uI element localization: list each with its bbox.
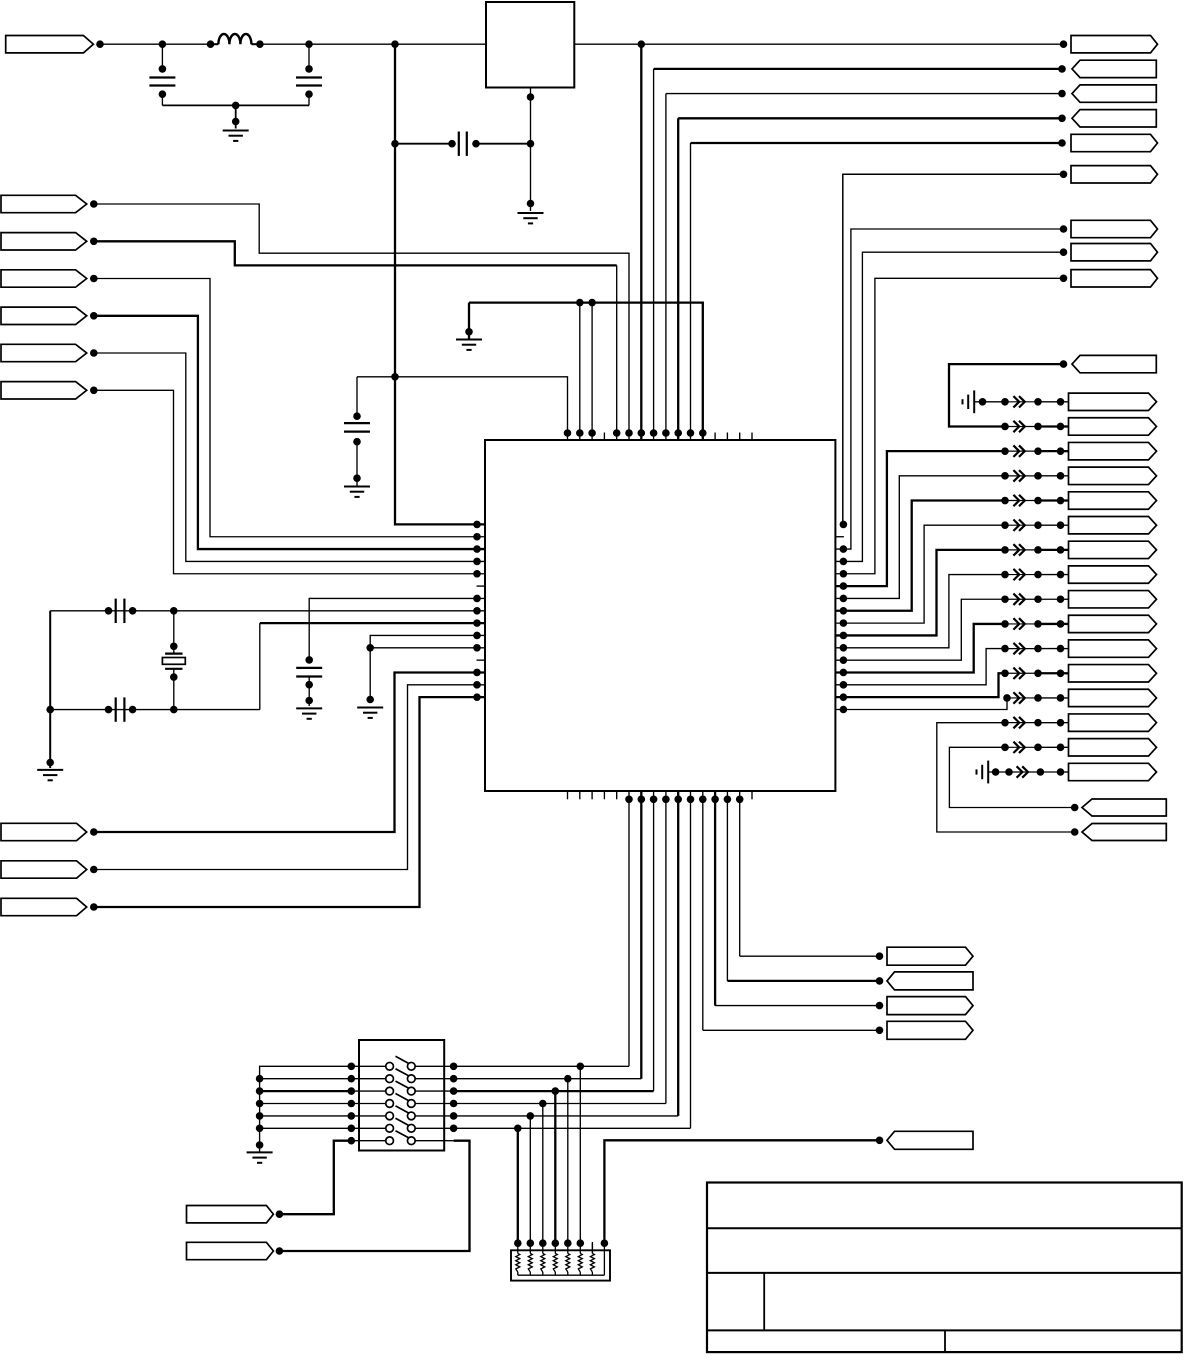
ferrite bead FB3 <box>1001 445 1064 456</box>
ferrite bead FB7 <box>1001 544 1064 555</box>
connector P-R1 flag <box>1069 418 1157 435</box>
junction dot RN1 riser row4 <box>539 1100 547 1247</box>
connector P-B1 flag <box>1082 799 1166 816</box>
capacitor C4 <box>344 377 370 486</box>
connector P-BR1005.6 flag <box>887 997 973 1015</box>
junction dot SW1 right pin6 <box>450 1125 458 1133</box>
connector P-M1 flag <box>1 823 87 840</box>
wire P-D to IC top pin <box>678 118 1063 440</box>
junction dot P-R1src <box>1060 360 1068 368</box>
wire P-B2 to row m13 <box>937 723 1075 832</box>
junction dot P-S1 <box>276 1210 284 1218</box>
wire row m6 to flag <box>1061 549 1069 551</box>
junction dot P-G <box>1060 225 1068 233</box>
junction dot IC top pin12 <box>699 429 707 437</box>
wire 3V3 to IC top pin7 <box>640 44 642 440</box>
junction dot IC right pin G <box>840 545 848 553</box>
connector P-E flag <box>1071 134 1158 151</box>
junction dot P-I <box>1060 275 1068 283</box>
junction dot P-L2 <box>90 238 98 246</box>
ferrite bead FB2 <box>1001 421 1064 432</box>
wire row m15 to flag <box>1061 771 1069 773</box>
ferrite bead FB15 <box>1001 742 1064 753</box>
wire row m13 to flag <box>1061 722 1069 724</box>
connector P-S2 flag <box>187 1242 274 1259</box>
wire IC bottom pin11 to SW1 row6 <box>454 791 691 1128</box>
junction dot P-M3 <box>90 903 98 911</box>
ferrite bead FB6 <box>1001 520 1064 531</box>
connector P-C flag <box>1072 85 1156 102</box>
junction dot SW1 right pin1 <box>450 1063 458 1071</box>
junction dot IC left pin3 <box>473 545 481 553</box>
wire L1 to node VIN-B <box>260 43 309 45</box>
connector P-R0 flag <box>1069 393 1157 410</box>
junction dot IC top pin E <box>687 429 695 437</box>
wire AGND to IC top pin3 <box>591 303 593 440</box>
junction dot IC top pin D <box>674 429 682 437</box>
connector P-BR980.9 flag <box>887 972 973 990</box>
wire IC bottom pin6 to SW1 row1 <box>454 791 629 1066</box>
capacitor C2 <box>296 44 322 105</box>
junction dot P-E <box>1058 139 1066 147</box>
connector P-R12 flag <box>1069 689 1157 706</box>
junction dot IC left pin VREF <box>473 595 481 603</box>
title block frame <box>707 1183 1182 1353</box>
capacitor C7 <box>296 656 322 706</box>
connector P-L5 flag <box>1 344 87 361</box>
wire P-F to IC right pin1 <box>843 174 1064 524</box>
connector P-B2 flag <box>1082 824 1166 841</box>
connector P-R14 flag <box>1069 739 1157 756</box>
connector P-R5 flag <box>1069 517 1157 534</box>
capacitor C3 <box>395 132 531 156</box>
wire P-S2 to SW1 row7 <box>279 1141 469 1251</box>
connector P-A 3V3 output flag <box>1071 36 1158 53</box>
wire P-C to IC top pin <box>666 94 1064 440</box>
junction dot P-L3 <box>90 275 98 283</box>
junction dot IC bottom pin6 <box>625 796 633 804</box>
wire RN1 riser row3 <box>554 1091 556 1243</box>
wire SW1 left ground bus <box>260 1066 352 1152</box>
connector P-D flag <box>1072 110 1156 127</box>
junction dot IC top pin5 <box>613 429 621 437</box>
junction dot VCC at IC pin <box>473 521 481 529</box>
junction dot SW1 right pin2 <box>450 1075 458 1083</box>
junction dot IC right pin12 <box>840 656 848 664</box>
wire P-S1 to SW1 row7 <box>279 1141 351 1215</box>
junction dot SW1 right pin5 <box>450 1112 458 1120</box>
junction dot IC bottom pin13 <box>711 796 719 804</box>
wire row m4 to flag <box>1061 499 1069 501</box>
wire U1 output to node A <box>574 43 641 45</box>
node U1-GND junction <box>527 140 535 148</box>
connector P-BR5 flag <box>887 1131 973 1149</box>
resistor network RN1 elements <box>516 1242 605 1275</box>
junction dot IC left pin gnd-b <box>473 644 481 652</box>
junction dot IC left pin m1 <box>473 669 481 677</box>
junction dot gnd net tee <box>366 644 374 652</box>
wire IC right pin12 to row m8 <box>835 599 1005 660</box>
junction dot IC left pin XTAL1 <box>473 607 481 615</box>
title block row line 2 <box>707 1272 1182 1274</box>
connector P-R3 flag <box>1069 467 1157 484</box>
ground GND7 <box>296 708 322 718</box>
junction dot IC right pin11 <box>840 644 848 652</box>
ground GND4 <box>344 487 370 497</box>
wire row m11 to flag <box>1061 672 1069 674</box>
connector P-L2 flag <box>1 233 87 250</box>
connector P-R8 flag <box>1069 591 1157 608</box>
wire P-L5 to IC left pin4 <box>94 353 485 561</box>
junction dot IC left pin m3 <box>473 693 481 701</box>
wire RN1 riser row5 <box>529 1116 531 1243</box>
wire IC right pin7 to row m3 <box>835 476 1005 599</box>
junction dot IC left pin5 <box>473 570 481 578</box>
ferrite bead FB13 <box>1003 692 1064 703</box>
junction dot P-D <box>1058 115 1066 123</box>
junction dot IC top pin B <box>650 429 658 437</box>
junction dot P-L6 <box>90 387 98 395</box>
wire P-M3 to IC left pin <box>94 697 485 907</box>
connector P-R1src flag <box>1072 355 1156 372</box>
wire IC right pin14 to row m10 <box>835 649 1005 685</box>
connector P-BR1030.3 flag <box>887 1021 973 1039</box>
wire IC bottom pin9 to SW1 row4 <box>454 791 666 1104</box>
wire IC right pin15 to row m11 <box>835 673 1005 697</box>
junction dot IC top pin2 <box>576 429 584 437</box>
wire GND9 to FB1 <box>974 398 1005 406</box>
junction dot IC bottom pin10 <box>674 796 682 804</box>
junction dot IC right pin1 <box>840 521 848 529</box>
wire IC right pin6 to row m2 <box>835 451 1005 586</box>
junction dot SW1 right pin4 <box>450 1100 458 1108</box>
junction dot IC bottom pin8 <box>650 796 658 804</box>
IC U2 body <box>485 440 835 791</box>
junction dot IC left pin gnd-a <box>473 632 481 640</box>
junction dot IC right pin10 <box>840 632 848 640</box>
wire RN1 riser row4 <box>542 1104 544 1244</box>
wire P-L1 to IC top pin6 <box>94 204 629 440</box>
node XTAL2-Y1 junction <box>170 706 178 714</box>
wire ground bus stem <box>232 105 240 128</box>
junction dot RN1 riser row6 <box>514 1125 522 1247</box>
wire row m12 to flag <box>1061 697 1069 699</box>
wire P-B to IC top pin <box>654 69 1064 440</box>
node VIN-B junction <box>305 40 313 48</box>
wire node376 to IC top pin1 <box>357 377 568 440</box>
junction dot IC top pin6 <box>625 429 633 437</box>
junction dot IC left pin XTAL2 <box>473 619 481 627</box>
junction dot flag y1030.3 <box>876 1027 884 1035</box>
junction dot RN1 riser row3 <box>552 1087 560 1247</box>
wire U1-GND stem <box>527 144 535 211</box>
connector P-L6 flag <box>1 382 87 399</box>
wire C1/C2 ground bus <box>162 104 309 106</box>
junction dot P-S2 <box>276 1247 284 1255</box>
junction dot AGND-b <box>588 299 596 307</box>
wire AGND rail <box>469 303 703 440</box>
connector P-R11 flag <box>1069 665 1157 682</box>
junction dot P-L5 <box>90 349 98 357</box>
junction dot J1 output <box>96 40 104 48</box>
junction dot ground bus <box>232 102 240 110</box>
wire RN1 riser row2 <box>567 1079 569 1244</box>
wire VCC vertical to IC pin <box>395 44 485 524</box>
wire P-H to IC right pin <box>835 252 1063 561</box>
wire AGND to IC top pin2 <box>579 303 581 440</box>
wire VIN rail J1 to C1 node <box>100 43 162 45</box>
wire row m0 to flag <box>1061 401 1069 403</box>
ground GND8 <box>247 1152 273 1162</box>
resistor network RN1 body <box>511 1250 610 1280</box>
wire P-M2 to IC left pin <box>94 685 485 870</box>
wire row m3 to flag <box>1061 475 1069 477</box>
connector P-BR956.2 flag <box>887 947 973 965</box>
junction dot IC right pin8 <box>840 607 848 615</box>
connector P-L1 flag <box>1 195 87 212</box>
wire XTAL2 net <box>50 709 260 711</box>
connector P-F flag <box>1071 166 1158 183</box>
junction dot P-B <box>1058 65 1066 73</box>
ferrite bead FB12 <box>1001 668 1064 679</box>
node VIN-A junction <box>159 40 167 48</box>
crystal Y1 <box>162 611 185 710</box>
wire IC gnd pins net <box>370 635 485 699</box>
wire row m7 to flag <box>1061 574 1069 576</box>
junction dot P-M2 <box>90 866 98 874</box>
node VCC junction y=376.8 <box>391 373 399 381</box>
wire row m10 to flag <box>1061 648 1069 650</box>
wire P-B1 to row m14 <box>949 747 1074 807</box>
connector P-R6 flag <box>1069 541 1157 558</box>
wire IC bottom pin12 to flag <box>703 791 880 1030</box>
ground GND9 rotated <box>963 390 975 413</box>
ground GND3 <box>456 340 482 350</box>
junction dot IC right pin7 <box>840 595 848 603</box>
ferrite bead FB9 <box>1001 594 1064 605</box>
junction dot IC left pin4 <box>473 558 481 566</box>
wire IC right pin13 to row m9 <box>835 624 1005 673</box>
wire RN1 riser row6 <box>517 1128 519 1243</box>
junction dot IC bottom pin15 <box>736 796 744 804</box>
voltage regulator U1 <box>486 2 574 88</box>
junction dot P-L4 <box>90 312 98 320</box>
connector P-H flag <box>1071 244 1158 261</box>
junction dot IC bottom pin7 <box>638 796 646 804</box>
junction dot IC right pin I <box>840 570 848 578</box>
capacitor C6 <box>105 697 137 721</box>
junction dots SW1 ground bus <box>256 1075 264 1149</box>
ground GND2 <box>518 213 544 223</box>
wire row m1 to flag <box>1061 425 1069 427</box>
connector P-L4 flag <box>1 307 87 324</box>
title block cell divider a <box>763 1273 765 1331</box>
junction dot IC top pin1 <box>564 429 572 437</box>
junction dot P-B2 <box>1071 828 1079 836</box>
wire P-G to IC right pin <box>835 229 1063 549</box>
junction dot IC top pin7 <box>638 429 646 437</box>
ground GND5 <box>37 770 63 780</box>
IC U2 right stub pin <box>835 536 844 538</box>
wire row m8 to flag <box>1061 598 1069 600</box>
capacitor C5 <box>105 599 137 623</box>
wire U1 GND pin <box>527 88 535 144</box>
wire IC right pin8 to row m4 <box>835 501 1005 611</box>
ferrite bead FB4 <box>1001 470 1064 481</box>
IC U2 top stub pins <box>604 433 752 441</box>
node XTAL1-Y1 junction <box>170 607 178 615</box>
ferrite bead FB5 <box>1001 495 1064 506</box>
wire IC bottom pin15 to flag <box>740 791 880 956</box>
title block row line 3 <box>707 1329 1182 1331</box>
wire VIN-A to L1 <box>162 43 210 45</box>
junction dot P-M1 <box>90 828 98 836</box>
junction dot IC top pin3 <box>588 429 596 437</box>
junction dot P-C <box>1058 90 1066 98</box>
wire GND10 to FB16 <box>988 768 1009 776</box>
ground GND10 rotated <box>977 761 989 784</box>
junction dot at P-A <box>1060 40 1068 48</box>
junction dot RN1 riser row5 <box>527 1112 535 1247</box>
wire XTAL2 riser to IC pin <box>260 623 485 709</box>
junction dot IC right pin13 <box>840 669 848 677</box>
wire P-L3 to IC left pin2 <box>94 279 485 537</box>
junction dot IC right pin6 <box>840 582 848 590</box>
wire IC right pin11 to row m7 <box>835 575 1005 648</box>
wire row m2 to flag <box>1061 450 1069 452</box>
connector P-I flag <box>1071 270 1158 287</box>
junction dot IC left pin2 <box>473 533 481 541</box>
connector P-R9 flag <box>1069 615 1157 632</box>
wire P-E to IC top pin <box>691 143 1064 440</box>
junction dot IC right pin15 <box>840 693 848 701</box>
junction dot IC right pin H <box>840 558 848 566</box>
wire P-I to IC right pin <box>835 278 1063 573</box>
wire row m9 to flag <box>1061 623 1069 625</box>
ground GND1 <box>223 131 249 141</box>
inductor L1 <box>207 34 264 48</box>
junction dot IC bottom pin9 <box>662 796 670 804</box>
connector P-S1 flag <box>187 1206 274 1223</box>
wire IC pin VREF <box>309 598 485 659</box>
wire IC bottom pin13 to flag <box>715 791 879 1006</box>
wire VCC to U1 input <box>395 43 486 45</box>
junction dot flag y980.9 <box>876 977 884 985</box>
wire IC bottom pin14 to flag <box>727 791 879 981</box>
connector P-R10 flag <box>1069 640 1157 657</box>
junction dot crystal gnd stem <box>46 759 54 767</box>
ferrite bead FB11 <box>1001 643 1064 654</box>
wire P-BR5 to RN1 <box>604 1140 879 1243</box>
junction dot flag y956.2 <box>876 952 884 960</box>
junction dot IC left pin m2 <box>473 681 481 689</box>
connector P-M3 flag <box>1 898 87 915</box>
junction dot IC right pin9 <box>840 619 848 627</box>
junction dot flag y1005.6 <box>876 1002 884 1010</box>
junction dot P-B1 <box>1071 804 1079 812</box>
wire RN1 riser row1 <box>579 1066 581 1243</box>
junction dot IC top pin C <box>662 429 670 437</box>
IC U2 bottom stub pins <box>568 791 753 799</box>
wire VIN-B to node VCC <box>309 43 395 45</box>
wire crystal ground vertical <box>49 611 51 768</box>
junction dot P-H <box>1060 248 1068 256</box>
wire P-M1 to IC left pin <box>94 672 485 832</box>
wire IC right pin16 to row m12 <box>835 698 1007 710</box>
junction dot SW1 right pin3 <box>450 1087 458 1095</box>
junction dot RN1 riser row1 <box>577 1063 585 1247</box>
junction dot IC bottom pin11 <box>687 796 695 804</box>
junction dot crystal gnd XTAL2 <box>46 706 54 714</box>
wire IC right pin10 to row m6 <box>835 550 1005 636</box>
junction dot RN1 riser row2 <box>564 1075 572 1247</box>
ferrite bead FB1 <box>1001 396 1064 407</box>
DIP switch SW1 left pin dots <box>348 1063 356 1145</box>
ferrite bead FB8 <box>1001 569 1064 580</box>
node A junction on 3V3 rail <box>638 40 646 48</box>
junction dot P-L1 <box>90 200 98 208</box>
wire IC bottom pin7 to SW1 row2 <box>454 791 642 1079</box>
DIP switch SW1 poles <box>351 1056 453 1144</box>
ferrite bead FB14 <box>1001 717 1064 728</box>
connector P-G flag <box>1071 220 1158 237</box>
DIP switch SW1 body <box>359 1040 444 1151</box>
connector P-R4 flag <box>1069 492 1157 509</box>
junction dot IC bottom pin14 <box>724 796 732 804</box>
junction dot IC right pin16 <box>840 706 848 714</box>
junction dot AGND-a <box>576 299 584 307</box>
connector P-B flag <box>1072 60 1156 77</box>
title block row line 1 <box>707 1227 1182 1229</box>
connector J1 power input flag <box>6 36 94 53</box>
wire P-L4 to IC left pin3 <box>94 316 485 549</box>
junction dot P-BR5 <box>876 1137 884 1145</box>
connector P-L3 flag <box>1 270 87 287</box>
node VCC junction at x=395 <box>391 40 399 48</box>
wire XTAL1 net <box>50 610 485 612</box>
connector P-R7 flag <box>1069 566 1157 583</box>
capacitor C1 <box>149 44 175 105</box>
connector P-R2 flag <box>1069 442 1157 459</box>
wire IC bottom pin10 to SW1 row5 <box>454 791 679 1116</box>
connector P-R15 flag <box>1069 763 1157 780</box>
wire P-R1src to row1 <box>949 364 1064 426</box>
ground GND6 <box>357 708 383 718</box>
junction dot P-F <box>1060 171 1068 179</box>
junction dot IC right pin14 <box>840 681 848 689</box>
title block cell divider b <box>944 1330 946 1352</box>
wire IC right pin9 to row m5 <box>835 525 1005 623</box>
wire P-L2 to IC top pin5 <box>94 241 617 440</box>
junction dot RN1 common <box>601 1239 609 1247</box>
wire row m14 to flag <box>1061 746 1069 748</box>
ground GND3 stem <box>465 303 473 339</box>
node VCC-C3 junction <box>391 140 399 148</box>
wire IC bottom pin8 to SW1 row3 <box>454 791 654 1091</box>
IC U2 left stub pins <box>477 586 486 660</box>
wire P-L6 to IC left pin5 <box>94 390 485 573</box>
ferrite bead FB16 <box>1005 766 1064 777</box>
junction dot IC bottom pin12 <box>699 796 707 804</box>
connector P-M2 flag <box>1 861 87 878</box>
connector P-R13 flag <box>1069 714 1157 731</box>
ferrite bead FB10 <box>1001 618 1064 629</box>
wire row m5 to flag <box>1061 524 1069 526</box>
junction dot gnd net stem <box>366 696 374 704</box>
wire 3V3 rail to P-A <box>641 43 1063 45</box>
